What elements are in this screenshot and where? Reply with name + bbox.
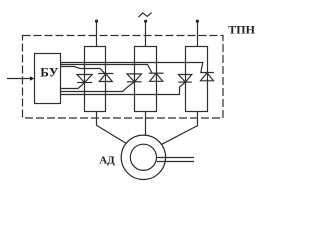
wire gate bus top 3 to VS2 (61, 67, 105, 74)
wire gate bus top 1 to VS6 (61, 63, 203, 73)
AC supply symbol ~ (138, 13, 151, 18)
motor shaft (156, 157, 194, 159)
node L1 terminal dot (95, 20, 98, 23)
wire module 2 to motor (145, 112, 147, 136)
wire phase C supply (197, 21, 199, 46)
svg-text:ТПН: ТПН (228, 23, 255, 37)
svg-text:АД: АД (99, 154, 115, 166)
wire module 3 to motor (162, 112, 198, 145)
thyristor VS5 (178, 75, 191, 83)
input arrow into BU (7, 78, 31, 80)
svg-text:БУ: БУ (40, 64, 59, 79)
wire gate bus bottom 3 to VS5 (61, 82, 186, 94)
node L3 terminal dot (196, 20, 199, 23)
thyristor VS2 (98, 74, 113, 82)
wire gate bus bottom 2 to VS3 (61, 82, 135, 92)
node L2 terminal dot (144, 20, 147, 23)
dashed enclosure TPN boundary (23, 36, 224, 119)
thyristor pair loop module 2 (135, 47, 157, 112)
wire gate bus bottom 1 to VS1 (61, 83, 85, 89)
control unit BU box (35, 54, 61, 104)
wire gate bus top 2 to VS4 (61, 65, 153, 73)
motor AD outer circle (121, 135, 165, 179)
thyristor VS1 (77, 75, 92, 83)
thyristor pair loop module 3 (186, 47, 208, 112)
wire phase A supply (96, 21, 98, 46)
wire phase B supply (145, 21, 147, 46)
thyristor VS3 (127, 74, 142, 82)
thyristor pair loop module 1 (85, 47, 106, 112)
motor AD inner circle (130, 144, 156, 170)
thyristor VS4 (149, 73, 164, 81)
thyristor VS6 (200, 73, 214, 81)
wire module 1 to motor (97, 112, 127, 144)
